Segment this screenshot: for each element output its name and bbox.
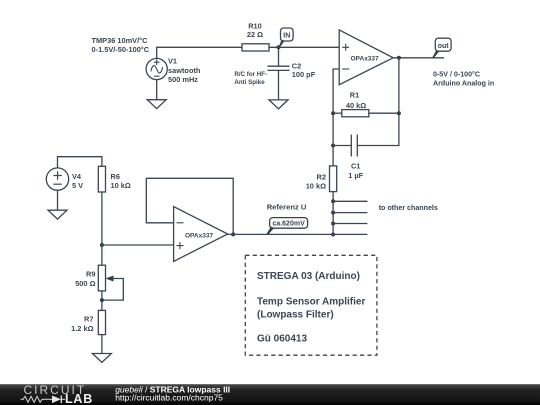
wire divider to U2 + input (102, 244, 174, 246)
capacitor C1 (351, 135, 357, 157)
wire U2 output to reference rail (228, 233, 368, 235)
ground under V4 (48, 210, 67, 219)
op-amp U2 (174, 207, 228, 262)
label C1 (348, 161, 363, 180)
junction R1 right (397, 111, 401, 115)
annotation box STREGA (245, 255, 377, 355)
svg-text:40 kΩ: 40 kΩ (346, 101, 366, 110)
svg-text:100 pF: 100 pF (292, 70, 316, 79)
ground under C2 (269, 100, 288, 109)
wire node IN to C2 (278, 47, 280, 66)
junction C1 left (331, 144, 335, 148)
junction reference net (331, 233, 335, 237)
capacitor C2 (268, 66, 290, 70)
wire U1 inverting input feedback left (333, 69, 339, 166)
svg-text:R2: R2 (317, 172, 326, 181)
label R1 (346, 91, 366, 110)
wire V1 to ground (156, 80, 158, 100)
label C2 (292, 62, 316, 79)
label R7 (71, 315, 93, 333)
svg-text:LAB: LAB (65, 392, 93, 405)
svg-text:R9: R9 (86, 270, 95, 279)
svg-text:0-1.5V/-50-100°C: 0-1.5V/-50-100°C (92, 45, 150, 54)
svg-text:500 Ω: 500 Ω (75, 279, 95, 288)
svg-text:Referenz U: Referenz U (267, 202, 307, 211)
svg-text:10 kΩ: 10 kΩ (306, 181, 326, 190)
flag ca.620mV (266, 218, 308, 235)
svg-text:V1: V1 (168, 57, 177, 66)
junction output node (397, 56, 401, 60)
wire channel 1 (333, 200, 367, 202)
svg-text:5 V: 5 V (72, 181, 83, 190)
svg-text:STREGA 03 (Arduino): STREGA 03 (Arduino) (257, 271, 360, 282)
wire channel 3 (333, 223, 367, 225)
logo diode (49, 396, 65, 404)
svg-text:1.2 kΩ: 1.2 kΩ (71, 324, 93, 333)
svg-text:to other channels: to other channels (379, 204, 438, 212)
svg-text:TMP36 10mV/°C: TMP36 10mV/°C (92, 36, 149, 45)
svg-text:IN: IN (283, 33, 290, 40)
potentiometer R9 (98, 265, 123, 300)
svg-text:R1: R1 (350, 91, 359, 100)
svg-text:Arduino Analog in: Arduino Analog in (433, 80, 494, 88)
junction channel 1 (331, 199, 335, 203)
svg-text:C1: C1 (351, 161, 360, 170)
wire C2 to ground (278, 70, 280, 100)
wire R6 to R9 (101, 192, 103, 265)
wire channel 2 (333, 212, 367, 214)
flag IN (279, 28, 294, 47)
svg-text:out: out (438, 43, 450, 50)
resistor R10 (242, 44, 269, 51)
svg-text:500 mHz: 500 mHz (168, 75, 198, 84)
annotation TMP36 (92, 36, 150, 54)
resistor R2 (330, 166, 337, 192)
wire U2 feedback loop (146, 178, 233, 234)
ground under R7 (92, 354, 111, 363)
wire R9 to R7 (101, 291, 103, 311)
wire R1 left (333, 112, 342, 114)
svg-text:Gü 060413: Gü 060413 (257, 334, 307, 345)
label R10 (247, 22, 263, 39)
svg-text:R7: R7 (84, 315, 93, 324)
wire V4 to ground (57, 190, 59, 210)
footer bar (0, 384, 540, 405)
ground under V1 (147, 100, 166, 109)
resistor R7 (98, 310, 105, 334)
svg-text:ca.620mV: ca.620mV (272, 221, 305, 228)
svg-text:R6: R6 (111, 172, 120, 181)
resistor R1 (342, 110, 369, 117)
junction wiper node (100, 298, 104, 302)
wire R10 to node IN (269, 46, 339, 48)
svg-text:V4: V4 (72, 172, 82, 181)
junction channel 2 (331, 211, 335, 215)
svg-text:Temp Sensor Amplifier: Temp Sensor Amplifier (257, 297, 365, 308)
wire V4 top to R6 (58, 157, 102, 168)
label V1 value (168, 57, 201, 85)
svg-text:(Lowpass Filter): (Lowpass Filter) (257, 310, 334, 321)
svg-text:OPAx337: OPAx337 (351, 55, 379, 62)
annotation Arduino (433, 71, 494, 88)
svg-text:0-5V / 0-100°C: 0-5V / 0-100°C (433, 71, 480, 79)
junction U2 output (231, 232, 235, 236)
wire V1 to R10 (157, 47, 242, 58)
voltage source V4 (46, 168, 68, 190)
svg-text:1 µF: 1 µF (348, 171, 363, 180)
junction channel 3 (331, 222, 335, 226)
wire R1 right (369, 112, 399, 114)
wire R2 down (332, 192, 334, 235)
label V4 (72, 172, 83, 190)
flag out (432, 38, 451, 58)
junction R1 left (331, 111, 335, 115)
node IN junction (277, 45, 281, 49)
svg-text:OPAx337: OPAx337 (185, 232, 213, 239)
svg-text:http://circuitlab.com/chcnp75: http://circuitlab.com/chcnp75 (115, 392, 223, 402)
op-amp U1 (339, 30, 393, 85)
wire U1 output to out flag (393, 57, 444, 59)
label R2 (306, 172, 326, 190)
junction divider node (100, 243, 104, 247)
svg-text:R/C for HF-: R/C for HF- (234, 71, 267, 78)
resistor R6 (98, 166, 105, 192)
wire output node down (357, 58, 399, 146)
wire R7 to ground (101, 335, 103, 354)
wire C1 left (333, 145, 351, 147)
voltage source V1 (146, 58, 167, 79)
annotation R/C for HF Anti Spike (234, 71, 267, 86)
logo zigzag resistor (21, 396, 49, 402)
svg-text:22 Ω: 22 Ω (247, 30, 263, 39)
label R6 (111, 172, 131, 190)
svg-text:10 kΩ: 10 kΩ (111, 181, 131, 190)
svg-text:sawtooth: sawtooth (168, 66, 201, 75)
label R9 (75, 270, 95, 288)
svg-text:Anti Spike: Anti Spike (234, 79, 265, 86)
